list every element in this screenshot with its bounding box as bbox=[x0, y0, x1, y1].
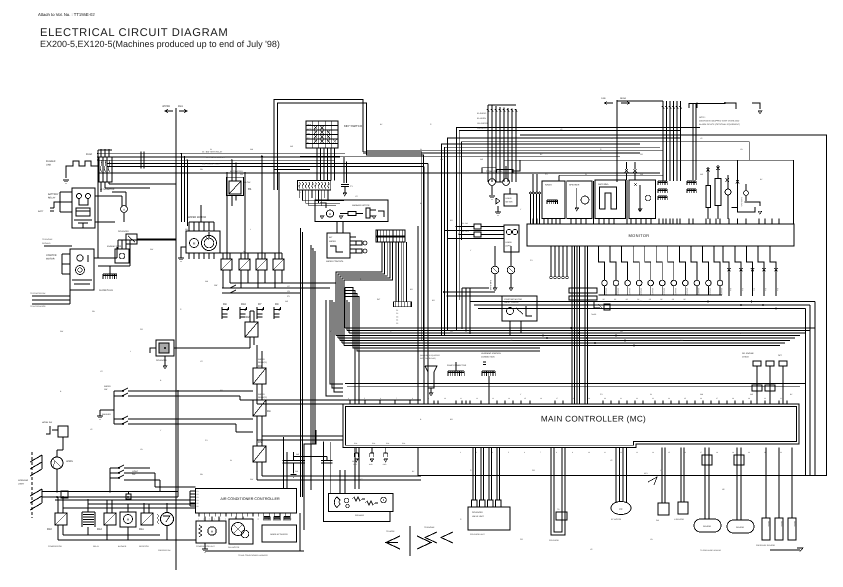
blower motor M bbox=[120, 512, 136, 527]
bottom-left horizontal wires bbox=[58, 496, 178, 498]
svg-text:TO HOSE: TO HOSE bbox=[386, 530, 395, 533]
svg-text:SENSOR: SENSOR bbox=[674, 288, 677, 296]
svg-text:LEARNING IGNITION: LEARNING IGNITION bbox=[481, 352, 501, 355]
wire verticals x311-315 bbox=[310, 245, 312, 490]
monitor bundle connector hatch bbox=[569, 288, 597, 293]
svg-text:RADIO: RADIO bbox=[545, 184, 552, 187]
bus mid risers corners bbox=[457, 127, 701, 330]
svg-text:W: W bbox=[243, 250, 245, 253]
svg-text:C2: C2 bbox=[396, 312, 398, 315]
svg-text:SW: SW bbox=[764, 288, 767, 291]
svg-text:TIMER: TIMER bbox=[591, 313, 597, 316]
svg-text:LIGHT: LIGHT bbox=[132, 470, 139, 473]
svg-text:R8: R8 bbox=[223, 303, 227, 306]
boundary line cab/engine left bbox=[175, 108, 177, 570]
svg-text:ELECTRICAL CIRCUIT DIAGRAM: ELECTRICAL CIRCUIT DIAGRAM bbox=[40, 27, 228, 39]
below monitor long horizontals bbox=[470, 301, 815, 303]
staircase verticals upper joins bbox=[345, 288, 540, 349]
svg-text:SOLENOID: SOLENOID bbox=[156, 359, 167, 362]
monitor bundle hatch2 bbox=[569, 296, 597, 300]
svg-text:HORN SW: HORN SW bbox=[42, 421, 52, 424]
relay box feeds bbox=[509, 321, 511, 336]
svg-text:WIPER: WIPER bbox=[104, 385, 111, 388]
resistor + transistor bbox=[157, 514, 159, 524]
wiper control riser bbox=[336, 221, 338, 233]
svg-text:(MACHINES EQUIPPED: (MACHINES EQUIPPED bbox=[420, 354, 441, 357]
wiper motor M bbox=[190, 239, 199, 248]
headlight wires bbox=[42, 491, 178, 493]
wiper relay boxes row bbox=[221, 259, 232, 270]
bus corner verticals x345-350 bbox=[344, 288, 346, 329]
speaker feeds from above bbox=[339, 470, 341, 494]
svg-text:L: L bbox=[300, 191, 301, 194]
slow blow fuse box bbox=[99, 157, 112, 182]
engine stop motor box bbox=[115, 249, 129, 263]
svg-text:RELAY(2): RELAY(2) bbox=[258, 396, 267, 399]
ec motor drops bbox=[615, 448, 617, 502]
top right junction T bbox=[697, 103, 725, 105]
svg-text:R9: R9 bbox=[275, 303, 279, 306]
long horizontals above MC y384-387 bbox=[345, 383, 805, 385]
svg-text:15A WIPER: 15A WIPER bbox=[477, 122, 488, 125]
svg-text:P6: P6 bbox=[197, 505, 199, 508]
svg-text:W : BATTERY RELAY: W : BATTERY RELAY bbox=[202, 151, 223, 154]
svg-text:SENSOR: SENSOR bbox=[616, 288, 619, 296]
lamp connector mid bbox=[126, 494, 131, 499]
n sensor drop bbox=[680, 448, 682, 502]
relay R1 wires bbox=[231, 160, 233, 181]
bus right inner verticals lower bbox=[805, 309, 807, 476]
svg-text:SENSOR: SENSOR bbox=[703, 525, 712, 528]
starter motor box bbox=[70, 249, 94, 290]
battery relay wires bbox=[60, 191, 72, 193]
svg-text:L: L bbox=[250, 228, 251, 231]
left loop corner into AC zone bbox=[418, 475, 421, 477]
svg-text:R4: R4 bbox=[267, 410, 271, 413]
svg-text:HOUR: HOUR bbox=[506, 197, 512, 200]
starting motor safety relay box bbox=[502, 296, 537, 321]
inter-box wires bbox=[593, 181, 595, 219]
svg-text:R1: R1 bbox=[248, 187, 252, 191]
brackets right bbox=[745, 202, 760, 206]
svg-text:TO ENGINE: TO ENGINE bbox=[424, 526, 435, 529]
svg-text:PUMP CONNECTOR: PUMP CONNECTOR bbox=[447, 364, 467, 367]
mode actuator box bbox=[262, 525, 297, 542]
wire bundle top right x663-680 bbox=[662, 101, 664, 181]
svg-text:SENSOR: SENSOR bbox=[639, 288, 642, 296]
svg-text:SENSOR: SENSOR bbox=[709, 288, 712, 296]
washer motor box bbox=[315, 200, 388, 222]
mc right wires from loop bbox=[799, 380, 801, 404]
fuse pair small bbox=[474, 224, 481, 229]
svg-text:SENSOR: SENSOR bbox=[662, 288, 665, 296]
wire long verticals center x299-307 bbox=[300, 228, 302, 497]
relay column cross wires bbox=[257, 403, 421, 405]
double wire key-switch loop bbox=[274, 100, 422, 227]
svg-text:FUSE: FUSE bbox=[86, 153, 93, 156]
wire vertical x303-316 lower bbox=[304, 430, 316, 530]
key arrow symbol bbox=[648, 477, 657, 485]
svg-text:WIPER: WIPER bbox=[258, 393, 265, 396]
resistor plug right pair bbox=[752, 385, 762, 391]
svg-text:SENSOR: SENSOR bbox=[736, 526, 745, 529]
svg-text:RW: RW bbox=[150, 248, 153, 251]
light switch cluster lower bbox=[110, 465, 124, 468]
svg-text:SW: SW bbox=[132, 473, 135, 476]
svg-text:SENSOR: SENSOR bbox=[720, 288, 723, 296]
svg-text:TO STARTER SW: TO STARTER SW bbox=[30, 292, 46, 295]
antenna box bbox=[595, 180, 626, 219]
fan group box bbox=[229, 519, 253, 544]
svg-text:MACHINES EQUIPPED WITH OVERLOA: MACHINES EQUIPPED WITH OVERLOAD bbox=[699, 120, 740, 123]
relay R1 bbox=[229, 181, 241, 194]
svg-text:AIR CONDITIONER CONTROLLER: AIR CONDITIONER CONTROLLER bbox=[220, 497, 280, 501]
svg-text:MODE ACTUATOR: MODE ACTUATOR bbox=[270, 533, 288, 536]
svg-text:EX200-5,EX120-5(Machines produ: EX200-5,EX120-5(Machines produced up to … bbox=[40, 39, 280, 49]
hour meter box bbox=[504, 194, 517, 206]
capacitor filters above AC bbox=[282, 460, 305, 462]
boundary symbol top-right bbox=[616, 100, 618, 182]
key loop junction dots bbox=[273, 162, 275, 164]
sensor pill B bbox=[736, 448, 738, 520]
harness arrows pair far bottom bbox=[425, 532, 437, 543]
svg-text:W: W bbox=[210, 148, 212, 151]
pressure sensor bottom wire bbox=[770, 549, 800, 551]
bus tick marks bbox=[140, 152, 142, 169]
hour meter diode bbox=[496, 198, 500, 204]
wire bundle top center x487-520 bbox=[487, 105, 489, 182]
bus long line y173 bbox=[98, 172, 660, 174]
key switch table drop wires bbox=[316, 148, 318, 181]
bus line y160 to monitor corner bbox=[504, 160, 794, 224]
capacitor component x344 bbox=[343, 157, 345, 183]
pump transmitter symbol bbox=[425, 366, 437, 388]
mode actuator combs bbox=[264, 516, 270, 518]
wiper motor box bbox=[186, 231, 220, 253]
battery sym bbox=[50, 207, 54, 209]
bus step y168 bbox=[482, 167, 496, 169]
washer plug bbox=[366, 208, 370, 218]
svg-text:CIGAR (OPTION): CIGAR (OPTION) bbox=[486, 170, 503, 173]
svg-text:SW: SW bbox=[214, 284, 217, 287]
glow plug connector bbox=[103, 273, 117, 275]
svg-text:P2: P2 bbox=[197, 493, 199, 496]
connector stack round bbox=[82, 511, 95, 513]
bundle hatch marks bbox=[487, 109, 489, 112]
starter wires bbox=[62, 253, 70, 255]
svg-text:R2: R2 bbox=[246, 316, 250, 319]
svg-text:M: M bbox=[329, 213, 331, 216]
svg-text:MONITOR: MONITOR bbox=[629, 233, 650, 238]
svg-text:METER: METER bbox=[506, 201, 514, 204]
monitor drop bundle to MC bbox=[571, 246, 573, 404]
svg-text:TO ALTERNATOR: TO ALTERNATOR bbox=[30, 305, 46, 308]
svg-text:TO ENGINE: TO ENGINE bbox=[42, 238, 53, 241]
svg-text:ACC: ACC bbox=[307, 128, 312, 131]
battery relay box bbox=[72, 188, 95, 228]
svg-text:L: L bbox=[130, 350, 131, 353]
svg-text:R5: R5 bbox=[258, 441, 262, 444]
svg-text:NOTE :: NOTE : bbox=[699, 116, 706, 119]
svg-text:RESISTOR: RESISTOR bbox=[139, 545, 149, 548]
svg-text:KEY SWITCH: KEY SWITCH bbox=[344, 124, 362, 128]
svg-text:MAIN CONTROLLER (MC): MAIN CONTROLLER (MC) bbox=[541, 415, 646, 424]
fuse strip drops bbox=[298, 190, 300, 198]
svg-text:SOLENOID: SOLENOID bbox=[118, 230, 129, 233]
wiper motor cam bbox=[202, 236, 217, 251]
svg-text:W: W bbox=[650, 393, 652, 396]
connector strip feeds bbox=[395, 242, 397, 302]
pressure sw drop A bbox=[661, 448, 663, 503]
monitor box bbox=[527, 224, 794, 246]
svg-text:FUEL PUMP: FUEL PUMP bbox=[489, 280, 492, 291]
fuse strip drop extensions bbox=[302, 200, 344, 202]
relay row risers bbox=[226, 173, 228, 259]
accessory box bbox=[629, 180, 655, 219]
svg-text:OFF: OFF bbox=[307, 124, 312, 127]
svg-text:EC: EC bbox=[619, 508, 623, 511]
svg-text:R16: R16 bbox=[241, 303, 246, 306]
svg-text:WASHER: WASHER bbox=[102, 413, 111, 416]
fuel pump circles bbox=[491, 266, 499, 274]
solenoid drop bbox=[164, 356, 166, 366]
switch lever symbols upper bbox=[114, 388, 128, 391]
mc top pin stubs bbox=[349, 401, 351, 405]
key switch table bbox=[306, 121, 338, 148]
svg-text:SOL: SOL bbox=[372, 442, 375, 445]
svg-text:SENSOR: SENSOR bbox=[697, 288, 700, 296]
svg-text:WORKING: WORKING bbox=[18, 479, 29, 482]
wire pair x693-696 with hook bbox=[689, 104, 697, 109]
cigar lighter circles bbox=[489, 179, 496, 186]
svg-text:ANTENNA: ANTENNA bbox=[598, 183, 609, 186]
svg-text:5A HORN: 5A HORN bbox=[477, 117, 486, 120]
wiper control unit box bbox=[327, 233, 350, 258]
svg-text:LIGHT: LIGHT bbox=[18, 483, 25, 486]
svg-text:SAFETY RELAY: SAFETY RELAY bbox=[504, 301, 519, 304]
horn button box bbox=[58, 426, 68, 437]
svg-text:GROUND: GROUND bbox=[42, 242, 51, 245]
svg-text:SOLENOID UNIT: SOLENOID UNIT bbox=[470, 533, 486, 536]
harness arrow right-pointing bbox=[417, 536, 431, 549]
sensor pill A bbox=[704, 448, 706, 519]
svg-text:CHECK: CHECK bbox=[742, 356, 750, 359]
svg-text:HORN: HORN bbox=[506, 241, 512, 244]
svg-text:REAR: REAR bbox=[620, 97, 626, 100]
svg-text:STARTING MOTOR: STARTING MOTOR bbox=[504, 298, 522, 301]
compressor group box bbox=[196, 521, 226, 543]
starter riser to bus bbox=[97, 150, 99, 258]
solenoid valve small bbox=[126, 234, 137, 244]
gauge bottom rail bbox=[599, 294, 723, 296]
svg-text:SW: SW bbox=[776, 288, 779, 291]
svg-text:DR. ENGINE: DR. ENGINE bbox=[742, 352, 754, 355]
solenoid unit box bbox=[468, 507, 510, 530]
relay R12 bbox=[104, 513, 116, 525]
horn option box bbox=[504, 225, 519, 252]
svg-text:CAB: CAB bbox=[601, 97, 606, 100]
fuse box strip bbox=[298, 181, 331, 190]
connector strip x393 y302 bbox=[393, 302, 411, 307]
main controller box bbox=[343, 404, 799, 448]
left sensor wires lower bbox=[32, 295, 70, 297]
svg-text:BATT: BATT bbox=[38, 210, 44, 213]
svg-text:G: G bbox=[123, 209, 125, 212]
svg-text:PRESSURE SENSOR: PRESSURE SENSOR bbox=[756, 544, 776, 547]
svg-text:RW: RW bbox=[240, 173, 243, 176]
washer motor symbol bbox=[320, 203, 326, 208]
svg-text:RELAY: RELAY bbox=[48, 197, 56, 200]
bus pass-through lines to right bbox=[367, 150, 664, 152]
svg-text:TO PRESSURE SENSOR: TO PRESSURE SENSOR bbox=[700, 549, 722, 552]
svg-text:N SENSOR: N SENSOR bbox=[674, 518, 685, 521]
buzzer circle B bbox=[744, 191, 749, 196]
gauge circles row bbox=[602, 280, 608, 286]
svg-text:ALARM DEVICE (OPTIONAL EQUIPME: ALARM DEVICE (OPTIONAL EQUIPMENT) bbox=[699, 123, 740, 126]
svg-text:WASHER MOTOR: WASHER MOTOR bbox=[352, 204, 370, 207]
svg-text:VALVE UNIT: VALVE UNIT bbox=[472, 515, 485, 518]
connector grid x376-405 bbox=[376, 230, 405, 236]
hook symbols top right bbox=[725, 103, 736, 109]
resistor vertical right B bbox=[715, 179, 721, 206]
ac left pin rows bbox=[190, 490, 196, 492]
main controller inner border bbox=[346, 407, 797, 446]
junction box small bbox=[61, 491, 68, 498]
timer relay symbols left of rail bbox=[594, 301, 600, 308]
svg-text:P4: P4 bbox=[197, 499, 199, 502]
svg-text:P5: P5 bbox=[197, 502, 199, 505]
svg-text:OVERLOAD: OVERLOAD bbox=[740, 197, 743, 207]
svg-text:WB : GLOW PLUG: WB : GLOW PLUG bbox=[202, 163, 220, 166]
svg-text:COMPRESSOR: COMPRESSOR bbox=[48, 545, 62, 548]
switch wires to left bbox=[113, 391, 115, 424]
svg-text:RW: RW bbox=[60, 330, 63, 333]
monitor top stubs bbox=[532, 219, 534, 225]
svg-text:SW: SW bbox=[741, 288, 744, 291]
switch lever symbols mid bbox=[114, 416, 128, 419]
svg-text:5A RADIO: 5A RADIO bbox=[477, 112, 487, 115]
svg-text:W : KEY: W : KEY bbox=[462, 230, 470, 233]
svg-text:GLOW PLUG: GLOW PLUG bbox=[99, 289, 113, 292]
radio bundle verticals bbox=[530, 194, 532, 224]
svg-text:P3: P3 bbox=[197, 496, 199, 499]
svg-text:(OPT): (OPT) bbox=[506, 245, 512, 248]
staircase down to MC left bbox=[330, 300, 343, 384]
svg-text:RELAY: RELAY bbox=[93, 545, 100, 548]
svg-text:SENSOR: SENSOR bbox=[651, 288, 654, 296]
svg-text:WIPER: WIPER bbox=[329, 240, 336, 243]
svg-text:RW: RW bbox=[250, 478, 253, 481]
svg-text:RW: RW bbox=[680, 339, 683, 342]
extra wires to horn box bbox=[444, 230, 504, 232]
wiper relay leads bbox=[222, 253, 224, 259]
washer resistor bbox=[348, 212, 356, 216]
svg-text:FAN MOTOR: FAN MOTOR bbox=[228, 546, 240, 549]
svg-text:SENSOR: SENSOR bbox=[628, 288, 631, 296]
harness arrow left-pointing bbox=[386, 536, 400, 549]
svg-text:SENSOR: SENSOR bbox=[605, 288, 608, 296]
svg-text:SW: SW bbox=[753, 288, 756, 291]
svg-text:WIPER: WIPER bbox=[258, 358, 265, 361]
svg-text:N2: N2 bbox=[722, 488, 724, 491]
svg-text:SW: SW bbox=[104, 388, 107, 391]
svg-text:R10: R10 bbox=[47, 528, 52, 531]
svg-text:SPEAKER: SPEAKER bbox=[355, 514, 365, 517]
svg-text:SW: SW bbox=[729, 288, 732, 291]
staircase from connector grid to mid bus bbox=[336, 242, 382, 336]
bus right outer loop bbox=[421, 135, 827, 476]
ec motor oval bbox=[611, 502, 631, 515]
svg-text:C3: C3 bbox=[396, 315, 398, 318]
diode X right col bbox=[706, 168, 709, 171]
svg-text:RELAY(1): RELAY(1) bbox=[258, 361, 267, 364]
svg-text:EC MOTOR: EC MOTOR bbox=[611, 518, 622, 521]
engine stop leads bbox=[117, 240, 119, 249]
bus left horizontal lines bbox=[98, 153, 345, 155]
svg-text:L: L bbox=[310, 478, 311, 481]
monitor-left drop bundle with pads bbox=[550, 246, 552, 276]
svg-text:P1: P1 bbox=[197, 490, 199, 493]
wiper control pins bbox=[350, 236, 356, 238]
fusible link symbols bbox=[70, 161, 96, 166]
svg-text:SOLENOID: SOLENOID bbox=[549, 539, 559, 542]
svg-text:WR : ALTERNATOR: WR : ALTERNATOR bbox=[206, 156, 225, 159]
svg-text:BATTERY: BATTERY bbox=[48, 193, 59, 196]
svg-text:R3: R3 bbox=[258, 365, 262, 368]
svg-text:ENG: ENG bbox=[178, 105, 183, 108]
headlight symbol upper bbox=[30, 455, 42, 462]
wiper motor bottom leads bbox=[188, 253, 190, 259]
svg-text:C4: C4 bbox=[396, 319, 398, 322]
wiper motor top leads bbox=[188, 222, 190, 231]
relay R11 bbox=[141, 513, 153, 525]
svg-text:C1: C1 bbox=[396, 309, 398, 312]
glow plug feed bbox=[109, 266, 111, 274]
junction dots light wires bbox=[56, 491, 58, 493]
svg-text:LINK: LINK bbox=[46, 164, 52, 167]
sensor drops without circles bbox=[723, 246, 729, 296]
svg-text:ON: ON bbox=[307, 133, 311, 136]
svg-text:W: W bbox=[585, 173, 587, 176]
fuse box top leads bbox=[100, 150, 102, 157]
speaker box left bbox=[567, 181, 592, 219]
compressor ground bbox=[204, 543, 206, 549]
fusible link ground bbox=[65, 172, 67, 178]
svg-text:Attach to Vol. No. : TT155E-02: Attach to Vol. No. : TT155E-02 bbox=[38, 12, 95, 17]
line y175 over boxes bbox=[559, 174, 663, 176]
svg-text:R11: R11 bbox=[139, 528, 144, 531]
pressure sensors right trio bbox=[765, 448, 767, 518]
resistor vertical right A bbox=[706, 185, 710, 207]
svg-text:HORN: HORN bbox=[66, 460, 73, 463]
comb connector right A bbox=[658, 180, 667, 182]
solenoid M box bbox=[156, 340, 174, 356]
switch cluster wires right bbox=[159, 480, 161, 492]
wiper ground bbox=[181, 247, 186, 258]
bus 4-line mid horizontal bbox=[345, 327, 815, 329]
headlight symbol lower bbox=[30, 489, 42, 496]
junction dots texture bbox=[181, 153, 183, 155]
air conditioner controller box bbox=[196, 488, 297, 513]
svg-text:MOTOR: MOTOR bbox=[46, 258, 55, 261]
svg-text:CONNECTION: CONNECTION bbox=[481, 356, 495, 359]
svg-text:LG: LG bbox=[287, 285, 290, 288]
mc bottom fork drops left bbox=[355, 448, 357, 453]
radio tall pair bbox=[532, 174, 534, 192]
svg-text:BLOWER: BLOWER bbox=[118, 545, 127, 548]
speaker circuit box bbox=[328, 494, 393, 512]
boundary arrows left bbox=[165, 110, 173, 112]
